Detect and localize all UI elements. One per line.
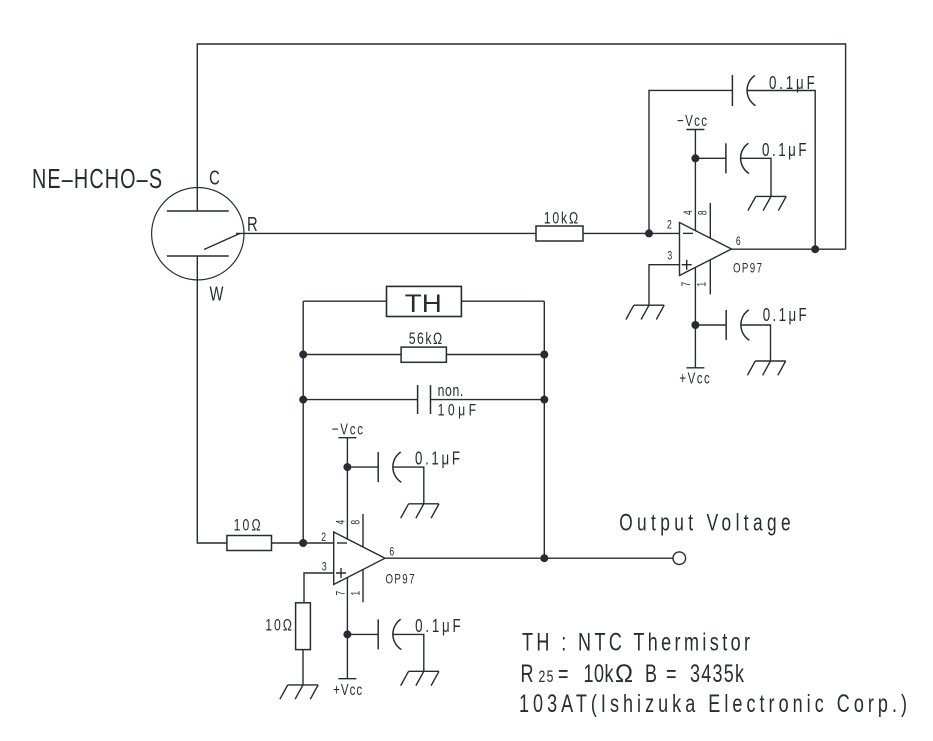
power -Vcc terminal op2 — [338, 437, 356, 439]
svg-text:103AT(Ishizuka Electronic Corp: 103AT(Ishizuka Electronic Corp.) — [519, 689, 907, 718]
output terminal circle — [673, 552, 686, 565]
svg-text:TH : NTC Thermistor: TH : NTC Thermistor — [522, 628, 750, 657]
op-amp U1 plus mark — [682, 260, 692, 270]
wire: op1 pin7 to +Vcc — [694, 268, 696, 368]
svg-text:W: W — [210, 282, 224, 305]
power +Vcc terminal op1 — [686, 367, 704, 369]
wire: top loop sensor C to op1 output rail — [197, 44, 845, 249]
svg-text:R: R — [247, 213, 258, 236]
node: left rail / R2 — [299, 351, 307, 359]
wire: -Vcc to op2 pin4 — [346, 438, 348, 540]
wire: R3 to op2 pin2 — [272, 542, 334, 544]
svg-text:10μF: 10μF — [438, 402, 477, 420]
wire: op2 pin7 to +Vcc — [346, 577, 348, 678]
svg-text:4: 4 — [335, 520, 348, 525]
wire: C4 to ground — [393, 467, 424, 504]
wire: C2 to ground — [741, 158, 771, 196]
wire: TH to right rail — [461, 300, 544, 302]
svg-text:0.1μF: 0.1μF — [769, 73, 815, 94]
op2 pin1 stub — [362, 570, 364, 603]
op1 pin8 stub — [709, 203, 711, 238]
wire: left rail to TH — [303, 300, 386, 302]
wire: -Vcc node to C4 — [347, 466, 378, 468]
resistor R2 56kohm body — [401, 347, 446, 362]
op1 pin1 stub — [709, 260, 711, 295]
wire: op2 pin3 to R4 — [304, 573, 334, 603]
wire: +Vcc node to C3 — [695, 324, 726, 326]
ground under C3 — [747, 361, 785, 375]
ground under R4 — [280, 685, 318, 699]
node: op1 output junction — [811, 245, 819, 253]
svg-text:−Vcc: −Vcc — [677, 111, 707, 129]
node: right rail / C6 — [540, 396, 548, 404]
svg-text:8: 8 — [350, 520, 363, 525]
wire: R2 to right rail — [446, 354, 544, 356]
svg-text:7: 7 — [335, 591, 348, 596]
capacitor C5 0.1uF left plate — [377, 619, 379, 649]
capacitor C4 0.1uF curved plate — [393, 452, 401, 482]
wire: -Vcc node to C2 — [695, 157, 726, 159]
svg-text:56kΩ: 56kΩ — [409, 330, 442, 348]
node: op2 +Vcc junction — [343, 630, 351, 638]
svg-text:10Ω: 10Ω — [234, 517, 261, 535]
resistor R1 10kohm body — [536, 226, 583, 241]
node: right rail / R2 — [540, 351, 548, 359]
svg-text:0.1μF: 0.1μF — [415, 616, 461, 637]
wire: left rail to C6 — [303, 399, 417, 401]
svg-text:TH: TH — [405, 289, 442, 318]
wire: op2 output to terminal — [385, 557, 673, 559]
svg-text:0.1μF: 0.1μF — [762, 140, 807, 161]
wire: left rail to R2 — [303, 354, 401, 356]
capacitor C6 10uF left plate — [417, 385, 419, 414]
node: op1 +Vcc junction — [691, 321, 699, 329]
op-amp U2 OP97 triangle — [334, 532, 385, 585]
svg-text:OP97: OP97 — [733, 261, 762, 276]
capacitor C2 0.1uF left plate — [725, 143, 727, 173]
capacitor C3 0.1uF curved plate — [741, 310, 749, 340]
op-amp U1 minus mark — [683, 232, 693, 234]
op-amp U2 minus mark — [337, 542, 347, 544]
svg-text:6: 6 — [736, 236, 741, 249]
svg-text:0.1μF: 0.1μF — [763, 305, 807, 326]
capacitor C4 0.1uF left plate — [377, 452, 379, 482]
ground under op1 pin3 — [626, 305, 664, 319]
node: op2 inverting input junction — [299, 539, 307, 547]
wire: -Vcc to op1 pin4 — [694, 130, 696, 231]
thermistor TH box — [387, 286, 462, 316]
svg-text:7: 7 — [681, 282, 694, 287]
svg-text:0.1μF: 0.1μF — [415, 448, 460, 469]
wire: +Vcc node to C5 — [347, 633, 378, 635]
wire: sensor R to R1 — [236, 232, 536, 234]
power +Vcc terminal op2 — [338, 678, 356, 680]
capacitor C1 0.1uF curved plate — [747, 75, 755, 105]
capacitor C6 10uF right plate — [430, 385, 432, 414]
wire: op1 pin3 to ground — [649, 265, 680, 306]
wire: R4 to ground — [302, 650, 304, 685]
capacitor C2 0.1uF curved plate — [741, 143, 749, 173]
svg-text:10kΩ: 10kΩ — [544, 210, 578, 228]
svg-text:4: 4 — [683, 210, 696, 215]
svg-text:C: C — [209, 166, 220, 189]
node: op1 inverting input junction — [645, 229, 653, 237]
power -Vcc terminal op1 — [686, 129, 704, 131]
svg-text:NE–HCHO–S: NE–HCHO–S — [32, 164, 162, 195]
ground under C5 — [401, 671, 439, 685]
capacitor C5 0.1uF curved plate — [393, 619, 401, 649]
svg-text:3: 3 — [667, 250, 672, 263]
capacitor C3 0.1uF left plate — [725, 310, 727, 340]
wire: feedback branch pin2 node up to C1 — [649, 90, 732, 233]
svg-text:3: 3 — [322, 561, 327, 574]
wire: C6 to right rail — [431, 399, 545, 401]
svg-text:2: 2 — [321, 532, 326, 545]
svg-text:1: 1 — [350, 591, 363, 596]
capacitor C1 0.1uF left plate — [731, 75, 733, 106]
svg-text:10Ω: 10Ω — [265, 617, 292, 635]
op-amp U2 plus mark — [336, 568, 346, 578]
op-amp U1 OP97 triangle — [680, 223, 732, 276]
wire: sensor W down-left rail to R3 — [197, 256, 227, 543]
svg-text:+Vcc: +Vcc — [333, 680, 362, 698]
svg-text:6: 6 — [389, 546, 394, 559]
ground under C4 — [401, 504, 439, 518]
wire: C5 to ground — [393, 634, 424, 671]
node: op2 -Vcc junction — [343, 463, 351, 471]
svg-text:+Vcc: +Vcc — [679, 369, 709, 387]
svg-text:8: 8 — [698, 210, 711, 215]
resistor R3 10ohm body — [227, 536, 272, 551]
ground under C2 — [748, 196, 786, 210]
node: left rail / C6 — [299, 396, 307, 404]
wire: C1 to output branch down to output node — [748, 91, 816, 250]
svg-text:2: 2 — [667, 219, 672, 232]
svg-text:R25=10kΩB=3435k: R25=10kΩB=3435k — [521, 659, 745, 688]
node: right rail / output — [540, 554, 548, 562]
wire: C3 to ground — [741, 325, 770, 361]
wire: op1 output to right rail — [732, 248, 846, 250]
svg-text:−Vcc: −Vcc — [332, 420, 363, 438]
resistor R4 10ohm body — [296, 603, 311, 650]
gas sensor NE-HCHO-S body — [152, 188, 244, 280]
wire: left rail of TH network — [302, 301, 304, 543]
node: op1 -Vcc junction — [691, 154, 699, 162]
svg-text:non.: non. — [438, 382, 464, 400]
svg-text:Output Voltage: Output Voltage — [619, 510, 790, 536]
svg-text:OP97: OP97 — [386, 572, 415, 587]
svg-text:1: 1 — [696, 282, 709, 287]
op2 pin8 stub — [362, 514, 364, 547]
wire: R1 to op1 pin2 — [583, 232, 680, 234]
wire: right rail of TH network — [543, 301, 545, 558]
